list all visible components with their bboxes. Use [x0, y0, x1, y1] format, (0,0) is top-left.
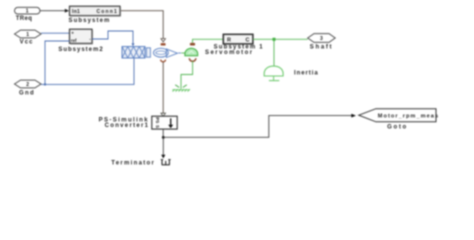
- wire Subsystem2 ref to Gnd line: [44, 41, 70, 86]
- svg-text:Goto: Goto: [387, 125, 408, 131]
- wire sensor top to Servomotor (green): [193, 39, 224, 43]
- wire Subsystem2 out to motor top terminal: [92, 31, 135, 46]
- wire converter to junction (dark): [162, 129, 165, 139]
- svg-text:Servomotor: Servomotor: [205, 50, 254, 56]
- wire motor port to PS converter (dark): [161, 62, 166, 116]
- svg-text:+: +: [71, 30, 74, 35]
- conn port Shaft (port 3): [308, 34, 336, 51]
- svg-text:C: C: [246, 38, 250, 44]
- inertia branch (green): [264, 39, 318, 80]
- motor DC machine icon: [122, 47, 181, 59]
- mechanical rotational reference (green ground): [172, 85, 190, 92]
- svg-text:Shaft: Shaft: [310, 45, 334, 51]
- wire sensor bottom to reference (green): [181, 61, 193, 89]
- subsystem block "Subsystem": [69, 6, 121, 24]
- conn port Vcc (port 1): [15, 30, 42, 45]
- svg-text:Gnd: Gnd: [19, 91, 35, 97]
- svg-text:Converter1: Converter1: [105, 123, 150, 129]
- svg-text:Subsystem2: Subsystem2: [58, 47, 103, 53]
- svg-text:Conn1: Conn1: [96, 9, 118, 15]
- svg-text:3: 3: [320, 36, 323, 42]
- svg-text:1: 1: [26, 9, 29, 15]
- svg-text:ref: ref: [71, 38, 77, 43]
- svg-text:TReq: TReq: [16, 16, 33, 22]
- PS-Simulink converter block: [99, 116, 178, 129]
- motor top-right port mark: [161, 43, 166, 45]
- svg-text:In1: In1: [72, 9, 80, 15]
- subsystem block "Subsystem 1 / Servomotor": [205, 34, 264, 56]
- rotational sensor (green dome): [181, 43, 197, 61]
- terminator icon: [111, 160, 170, 167]
- svg-text:R: R: [227, 38, 231, 44]
- conn port Gnd (port 2): [15, 80, 42, 97]
- svg-text:2: 2: [26, 82, 29, 88]
- wire TReq to Subsystem: [40, 9, 69, 13]
- svg-text:Inertia: Inertia: [294, 71, 319, 77]
- wire junction to Terminator: [161, 137, 165, 158]
- svg-text:Terminator: Terminator: [111, 161, 155, 167]
- svg-text:Subsystem: Subsystem: [69, 18, 111, 24]
- motor bottom-right port mark: [161, 60, 166, 62]
- subsystem block "Subsystem2": [58, 29, 103, 53]
- wire Servomotor to Shaft (green) with junction: [253, 38, 308, 41]
- svg-text:Motor_rpm_meas: Motor_rpm_meas: [378, 114, 439, 120]
- wire Vcc to Subsystem2: [41, 32, 70, 34]
- svg-text:PS: PS: [155, 117, 160, 123]
- goto tag Motor_rpm_meas: [359, 109, 439, 131]
- inport TReq (port 1): [15, 7, 41, 22]
- svg-text:S: S: [155, 125, 160, 128]
- wire Conn1 to motor top port (dark): [121, 11, 166, 42]
- svg-text:1: 1: [26, 32, 29, 38]
- svg-text:Vcc: Vcc: [20, 39, 34, 45]
- wire Gnd to motor bottom terminal: [41, 58, 134, 84]
- wire junction to Goto (dark): [163, 114, 356, 138]
